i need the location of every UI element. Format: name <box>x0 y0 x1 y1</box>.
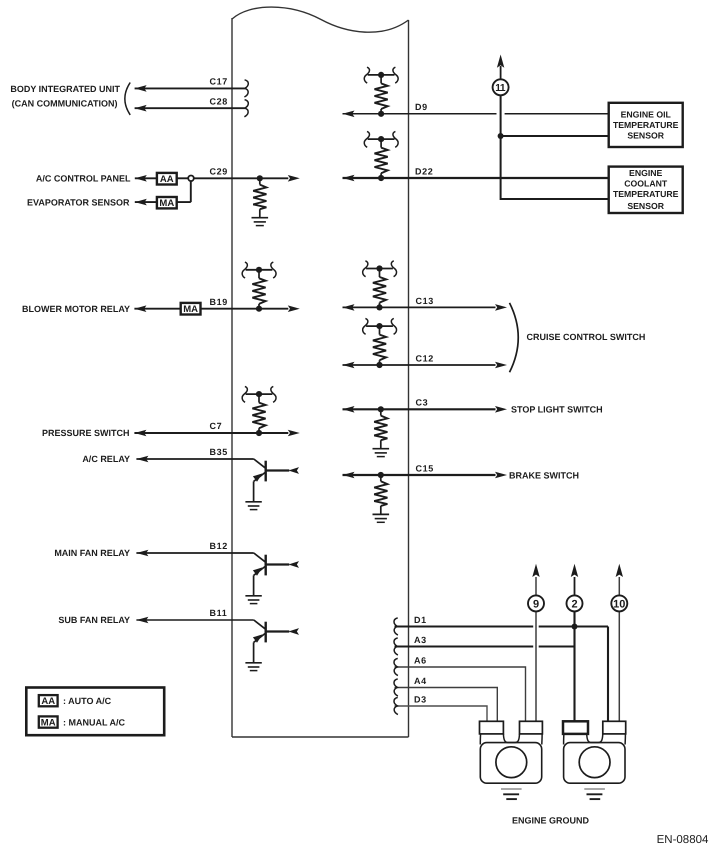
svg-text:11: 11 <box>495 83 506 94</box>
svg-text:C13: C13 <box>416 296 434 306</box>
svg-text:D9: D9 <box>415 102 428 112</box>
svg-text:D3: D3 <box>414 694 427 704</box>
svg-text:A3: A3 <box>414 635 427 645</box>
svg-text:: MANUAL A/C: : MANUAL A/C <box>63 717 125 727</box>
svg-text:BLOWER MOTOR RELAY: BLOWER MOTOR RELAY <box>22 304 130 314</box>
svg-text:PRESSURE SWITCH: PRESSURE SWITCH <box>42 428 130 438</box>
svg-text:TEMPERATURE: TEMPERATURE <box>613 120 679 130</box>
svg-text:B19: B19 <box>210 297 228 307</box>
svg-text:AA: AA <box>160 174 174 185</box>
svg-text:C3: C3 <box>416 398 429 408</box>
svg-text:BODY INTEGRATED UNIT: BODY INTEGRATED UNIT <box>10 84 120 94</box>
svg-text:2: 2 <box>571 598 577 610</box>
svg-text:EN-08804: EN-08804 <box>657 834 709 846</box>
svg-text:A/C CONTROL PANEL: A/C CONTROL PANEL <box>36 173 131 183</box>
svg-text:CRUISE CONTROL SWITCH: CRUISE CONTROL SWITCH <box>527 332 646 342</box>
svg-text:COOLANT: COOLANT <box>624 179 668 189</box>
svg-text:C28: C28 <box>210 96 228 106</box>
svg-text:10: 10 <box>613 598 625 610</box>
svg-text:C29: C29 <box>210 167 228 177</box>
svg-text:MA: MA <box>159 198 174 209</box>
svg-text:D1: D1 <box>414 615 427 625</box>
svg-text:MAIN FAN RELAY: MAIN FAN RELAY <box>54 548 130 558</box>
svg-text:SENSOR: SENSOR <box>627 201 664 211</box>
svg-text:AA: AA <box>41 696 55 707</box>
svg-text:A6: A6 <box>414 655 427 665</box>
svg-text:SUB FAN RELAY: SUB FAN RELAY <box>58 615 130 625</box>
svg-text:B11: B11 <box>210 608 228 618</box>
svg-text:B12: B12 <box>210 541 228 551</box>
svg-text:A/C RELAY: A/C RELAY <box>82 454 130 464</box>
svg-text:A4: A4 <box>414 676 427 686</box>
svg-text:TEMPERATURE: TEMPERATURE <box>613 189 679 199</box>
svg-text:C12: C12 <box>416 353 434 363</box>
svg-text:ENGINE OIL: ENGINE OIL <box>621 110 672 120</box>
svg-text:ENGINE: ENGINE <box>629 168 663 178</box>
svg-text:C17: C17 <box>210 77 228 87</box>
svg-text:STOP LIGHT SWITCH: STOP LIGHT SWITCH <box>511 405 603 415</box>
svg-text:C15: C15 <box>416 463 434 473</box>
svg-text:MA: MA <box>41 717 56 728</box>
svg-text:C7: C7 <box>210 421 223 431</box>
svg-text:9: 9 <box>533 598 539 610</box>
svg-text:EVAPORATOR SENSOR: EVAPORATOR SENSOR <box>27 197 130 207</box>
svg-text:(CAN COMMUNICATION): (CAN COMMUNICATION) <box>12 98 118 108</box>
svg-text:D22: D22 <box>415 166 433 176</box>
svg-text:SENSOR: SENSOR <box>627 130 664 140</box>
svg-text:MA: MA <box>183 304 198 315</box>
svg-text:ENGINE GROUND: ENGINE GROUND <box>512 815 590 825</box>
svg-text:BRAKE SWITCH: BRAKE SWITCH <box>509 470 579 480</box>
svg-text:: AUTO A/C: : AUTO A/C <box>63 696 112 706</box>
svg-text:B35: B35 <box>210 447 228 457</box>
